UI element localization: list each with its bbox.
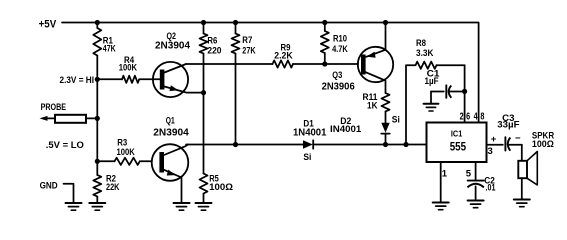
probe tip [40,102,67,121]
op-amp IC1 555 box [427,123,487,163]
diode D1 [293,119,327,164]
node R7/D1 junction [233,142,238,147]
node D2/D1 junction [383,142,388,147]
resistor R6 [200,23,222,57]
svg-text:2.3V = HI: 2.3V = HI [60,75,95,85]
resistor R7 [232,23,256,57]
svg-text:555: 555 [450,140,467,154]
svg-text:4.7K: 4.7K [332,44,348,55]
node probe junction [95,116,100,121]
ground below R5 [196,203,212,210]
node R10/R9 junction [322,61,327,66]
ground below R2 [89,203,105,210]
wire GND label to ground [64,184,74,203]
svg-text:IN4001: IN4001 [330,124,362,135]
pin 4 label [474,111,478,122]
pin 1 wire [441,162,448,203]
resistor R3 [97,138,152,165]
transistor Q1 [152,116,189,204]
wire +5V rail from label to pin 4,8 of IC1 [62,23,479,123]
svg-text:.01: .01 [486,183,497,194]
diode D2 [330,115,400,145]
svg-text:Q1: Q1 [166,116,175,127]
svg-text:22K: 22K [106,182,120,193]
node +5V/R10 junction [322,20,327,25]
wire R1 to 2.3V=HI node [96,56,98,80]
svg-text:GND: GND [40,180,58,191]
svg-text:IC1: IC1 [451,129,463,139]
svg-text:3.3K: 3.3K [416,48,434,59]
svg-text:R7: R7 [242,35,252,46]
svg-text:100K: 100K [117,147,135,158]
svg-text:R10: R10 [333,34,347,45]
wire C3 to speaker [521,145,523,161]
pin 2 label [460,111,464,122]
transistor Q2 [153,31,204,97]
wire probe down to LO node [96,118,98,161]
resistor R5 [200,173,234,203]
svg-text:PROBE: PROBE [41,102,66,113]
node C1/R8 junction [462,89,467,94]
pin 8 label [480,111,484,122]
wire R6 to R5 column [203,54,205,174]
node R8/D1 junction [403,142,408,147]
svg-text:−: − [515,133,521,144]
node Q2 emitter / R6-R5 junction [201,90,206,95]
wire speaker to ground [521,178,523,199]
wire C1 to ground [430,92,432,104]
node R3/R2 junction (.5V = LO) [46,140,100,164]
svg-text:8: 8 [480,111,484,122]
transistor Q3 [322,23,394,94]
ground below speaker [514,200,530,207]
svg-text:100K: 100K [119,62,137,73]
capacitor C1 [425,68,465,98]
svg-text:1N4001: 1N4001 [293,127,327,139]
svg-text:47K: 47K [103,44,116,55]
resistor R4 [97,55,153,83]
svg-text:27K: 27K [242,45,255,56]
svg-text:2N3904: 2N3904 [153,126,189,138]
svg-text:5: 5 [466,168,472,179]
wire R7 down to D1 line [235,54,237,145]
svg-text:2N3906: 2N3906 [322,80,355,92]
speaker SPKR [518,131,554,186]
node +5V/R1 junction [95,20,100,25]
node +5V/R7 junction [233,20,238,25]
ground GND input [66,203,82,210]
wire Q2 collector to R9 [186,63,273,65]
pin 5 wire [466,162,476,181]
svg-text:2.2K: 2.2K [274,50,293,61]
resistor R9 [273,43,325,68]
wire D1 to IC1 pin 7 [313,144,426,146]
resistor R1 [93,23,115,56]
ground below Q1 emitter [174,203,190,210]
svg-text:3: 3 [488,146,493,157]
node 2.3V = HI [60,75,100,85]
svg-text:4: 4 [474,111,478,122]
svg-text:220: 220 [207,45,221,56]
wire HI node down to probe [96,79,98,118]
GND label [40,180,58,191]
capacitor C2 [467,176,496,201]
svg-text:Si: Si [392,115,400,126]
svg-text:Si: Si [303,152,311,163]
svg-text:Q3: Q3 [332,70,342,81]
ground below C1 [424,104,439,111]
resistor R10 [321,23,348,65]
node +5V/R6 junction [201,20,206,25]
svg-text:+5V: +5V [39,18,57,30]
resistor R11 [363,92,390,123]
svg-text:1: 1 [442,168,448,179]
svg-text:.5V = LO: .5V = LO [46,140,84,150]
svg-text:6: 6 [466,111,470,122]
wire LO node to R2 [96,161,98,175]
ground below pin 1 [433,203,449,210]
svg-text:2: 2 [460,111,464,122]
probe body [55,115,97,123]
resistor R8 [406,38,465,144]
svg-text:100Ω: 100Ω [209,182,233,193]
svg-text:100Ω: 100Ω [532,139,554,150]
pin 3 wire [487,145,503,157]
resistor R2 [93,174,119,204]
svg-text:33µF: 33µF [497,120,519,131]
wire R8 right down to IC1 pins 2,6 [464,65,466,122]
+5V label [39,18,57,30]
wire Q1 collector line to D1 [186,144,303,146]
capacitor C3 [491,113,522,151]
svg-text:+: + [491,134,497,145]
svg-text:2N3904: 2N3904 [155,39,190,51]
ground below C2 [468,201,484,208]
pin 6 label [466,111,470,122]
svg-text:1K: 1K [367,101,378,112]
wire R9 node to Q3 base [325,63,358,65]
svg-text:1µF: 1µF [425,76,439,87]
node +5V/Q3-emitter junction [383,20,388,25]
